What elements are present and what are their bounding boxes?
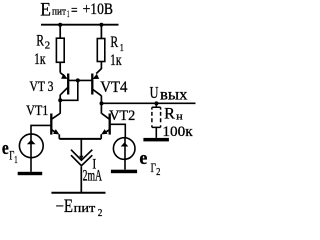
svg-text:2: 2 bbox=[98, 207, 103, 219]
svg-text:R: R bbox=[110, 34, 118, 51]
svg-text:1к: 1к bbox=[110, 52, 122, 69]
svg-text:=: = bbox=[71, 3, 78, 19]
svg-text:1: 1 bbox=[67, 10, 70, 20]
svg-text:R: R bbox=[164, 105, 175, 122]
svg-text:вых: вых bbox=[160, 86, 188, 103]
svg-text:пит: пит bbox=[74, 200, 96, 215]
svg-text:1к: 1к bbox=[34, 51, 46, 68]
svg-text:VT2: VT2 bbox=[109, 108, 135, 124]
svg-text:2mA: 2mA bbox=[83, 168, 103, 185]
svg-text:пит: пит bbox=[52, 7, 66, 18]
svg-text:VT4: VT4 bbox=[100, 79, 127, 96]
svg-text:R: R bbox=[36, 32, 44, 49]
svg-text:2: 2 bbox=[156, 166, 160, 178]
svg-text:−E: −E bbox=[56, 197, 74, 217]
svg-text:н: н bbox=[176, 111, 183, 123]
svg-text:E: E bbox=[40, 0, 51, 20]
svg-text:1: 1 bbox=[14, 155, 17, 166]
svg-text:e: e bbox=[139, 149, 147, 169]
svg-text:+10В: +10В bbox=[83, 1, 113, 18]
svg-text:VT 3: VT 3 bbox=[30, 79, 54, 95]
svg-text:e: e bbox=[2, 139, 9, 159]
svg-text:VT1: VT1 bbox=[26, 103, 48, 119]
svg-text:2: 2 bbox=[45, 39, 50, 51]
svg-text:100к: 100к bbox=[162, 124, 193, 140]
svg-text:U: U bbox=[150, 83, 159, 102]
